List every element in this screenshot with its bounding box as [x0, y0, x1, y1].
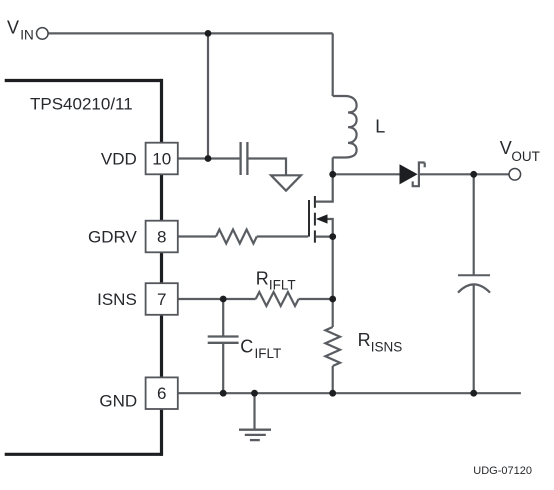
svg-text:6: 6: [157, 384, 166, 403]
svg-text:10: 10: [152, 149, 171, 168]
svg-text:V: V: [7, 17, 19, 37]
svg-text:IFLT: IFLT: [269, 278, 296, 293]
svg-text:V: V: [500, 138, 512, 158]
svg-text:GND: GND: [99, 391, 137, 410]
svg-text:C: C: [240, 337, 253, 357]
svg-text:R: R: [256, 268, 269, 288]
svg-text:ISNS: ISNS: [97, 290, 137, 309]
svg-text:8: 8: [157, 227, 166, 246]
svg-text:GDRV: GDRV: [88, 227, 137, 246]
svg-text:VDD: VDD: [101, 149, 137, 168]
svg-text:7: 7: [157, 290, 166, 309]
svg-text:UDG-07120: UDG-07120: [473, 465, 532, 477]
svg-text:IN: IN: [20, 28, 34, 43]
svg-text:IFLT: IFLT: [255, 346, 282, 361]
svg-text:ISNS: ISNS: [371, 340, 403, 355]
svg-text:TPS40210/11: TPS40210/11: [30, 95, 133, 114]
svg-text:R: R: [358, 330, 371, 350]
svg-text:OUT: OUT: [511, 149, 540, 164]
svg-text:L: L: [375, 116, 385, 136]
